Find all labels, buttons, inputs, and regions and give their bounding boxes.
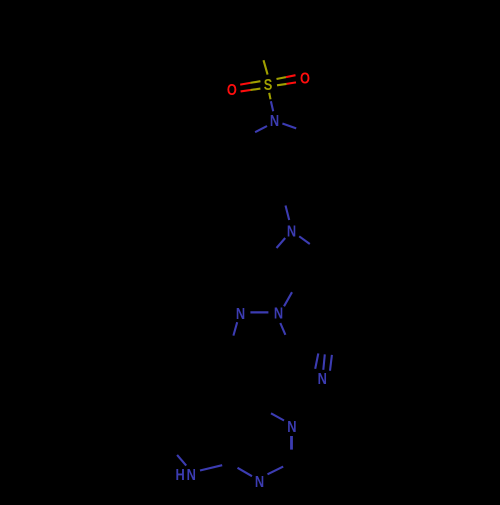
bond CH3-S (S half) [264, 60, 268, 74]
bond S=O right, upper line [277, 75, 296, 79]
bond Nazetidine-C2' (N half) [277, 238, 286, 248]
svg-text:H: H [175, 466, 184, 483]
bond S=O left, upper line [240, 81, 260, 84]
svg-text:N: N [274, 304, 283, 321]
svg-text:N: N [287, 222, 296, 239]
bond S-N1 piperidine [269, 93, 273, 111]
bond N7-C7a (N half) [200, 465, 222, 470]
svg-text:O: O [300, 69, 310, 86]
svg-text:N: N [187, 466, 196, 483]
bond N1pyrimidine-C7a (N half) [238, 468, 253, 476]
bond N1pyrimidine-C2 (N half) [268, 467, 284, 475]
bond C4pyrimidine-N3 (N half) [271, 413, 284, 420]
svg-text:N: N [236, 305, 245, 322]
svg-text:N: N [270, 112, 279, 129]
bond N3-C2 pyrimidine (N half, double) [290, 436, 293, 450]
bond N1pyrazole-C5 (N half) [280, 323, 285, 335]
bond N1pip-C6 (N half) [282, 124, 296, 129]
svg-text:N: N [287, 418, 296, 435]
bond S=O left, lower line [241, 89, 261, 92]
svg-text:N: N [318, 370, 327, 387]
svg-text:S: S [264, 76, 273, 93]
bond N1pip-C2 (N half) [255, 126, 267, 132]
nitrile C#N triple bond (N half), line 2 [323, 354, 325, 369]
bond S=O right, lower line [277, 82, 296, 85]
bond Nazetidine-C4' (N half) [299, 236, 310, 244]
bond N2pyrazole-C3 (N half) [233, 322, 237, 335]
bond C3'azetidine-N1pyrazole (N half) [284, 292, 292, 306]
bond N1-N2 pyrazole [250, 311, 268, 313]
bond C4pip-Nazetidine (N half) [286, 206, 290, 221]
svg-text:N: N [255, 473, 264, 490]
svg-text:O: O [227, 81, 237, 98]
bond C6pyrrole-N7 (N half) [177, 455, 186, 466]
nitrile C#N triple bond (N half), line 3 [330, 355, 332, 371]
nitrile C#N triple bond (N half), line 1 [315, 353, 318, 368]
